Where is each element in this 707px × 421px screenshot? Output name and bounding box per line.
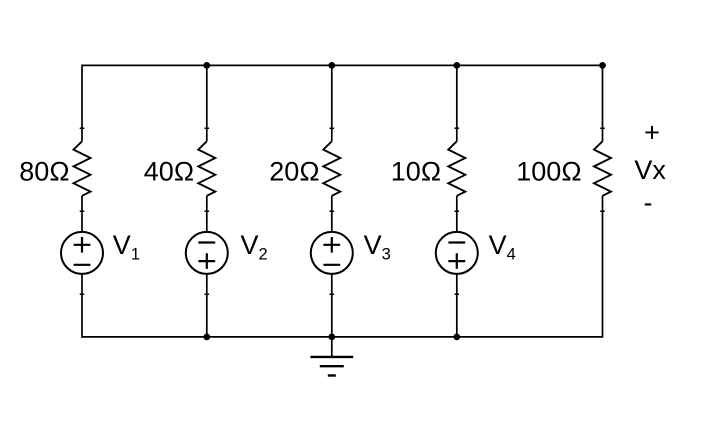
wire branch4 lower (456, 274, 458, 337)
wire branch1 middle (81, 196, 83, 232)
pin tick (600, 211, 605, 213)
wire branch5 upper (602, 65, 604, 141)
resistor 100Ω (594, 141, 611, 196)
source V1 (61, 232, 103, 274)
wire branch1 upper (81, 65, 83, 142)
pin tick (80, 128, 85, 130)
pin tick (205, 128, 210, 130)
ground (310, 337, 353, 376)
wire branch3 middle (331, 196, 333, 232)
junction dot bottom node 2 (203, 334, 210, 341)
pin tick (455, 294, 460, 296)
junction dot top node 5 (599, 62, 606, 69)
svg-text:+: + (644, 118, 660, 148)
pin tick (80, 294, 85, 296)
junction dot top node 2 (203, 62, 210, 69)
wire branch4 middle (456, 196, 458, 232)
resistor 20Ω (323, 141, 340, 196)
pin tick (80, 211, 85, 213)
wire branch5 lower (602, 196, 604, 338)
pin tick (205, 294, 210, 296)
svg-text:20Ω: 20Ω (269, 157, 319, 187)
svg-text:100Ω: 100Ω (516, 157, 581, 187)
svg-text:Vx: Vx (634, 155, 666, 185)
resistor 10Ω (448, 141, 465, 196)
wire branch3 lower (331, 274, 333, 337)
svg-text:80Ω: 80Ω (19, 157, 69, 187)
source V4 (436, 232, 478, 274)
wire top rail (82, 64, 603, 66)
svg-text:40Ω: 40Ω (144, 157, 194, 187)
wire branch2 middle (206, 196, 208, 232)
wire branch4 upper (456, 65, 458, 141)
junction dot top node 4 (453, 62, 460, 69)
source V3 (311, 232, 353, 274)
pin tick (330, 294, 335, 296)
pin tick (330, 211, 335, 213)
junction dot top node 3 (328, 62, 335, 69)
pin tick (455, 211, 460, 213)
pin tick (455, 128, 460, 130)
wire branch2 upper (206, 65, 208, 141)
pin tick (600, 128, 605, 130)
wire bottom rail (82, 336, 603, 338)
svg-text:-: - (644, 188, 653, 218)
wire branch3 upper (331, 65, 333, 141)
wire branch2 lower (206, 274, 208, 337)
junction dot bottom node 3 (328, 334, 335, 341)
pin tick (330, 128, 335, 130)
source V2 (186, 232, 228, 274)
wire branch1 lower (81, 274, 83, 338)
pin tick (205, 211, 210, 213)
resistor 80Ω (74, 141, 91, 196)
resistor 40Ω (198, 141, 215, 196)
svg-text:10Ω: 10Ω (391, 157, 441, 187)
junction dot bottom node 4 (453, 334, 460, 341)
